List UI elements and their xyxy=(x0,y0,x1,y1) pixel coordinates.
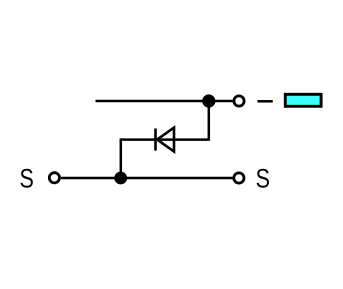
junction dot bottom xyxy=(114,172,127,185)
dash (minus sign) xyxy=(258,100,273,103)
terminal circle top right xyxy=(234,96,244,106)
wire from top junction through diode level to bottom junction xyxy=(121,101,209,178)
wire bottom horizontal xyxy=(61,177,233,180)
wire top horizontal xyxy=(96,100,233,103)
marker rectangle cyan xyxy=(285,94,321,106)
diode triangle xyxy=(157,128,174,152)
terminal circle bottom left xyxy=(49,173,59,183)
svg-text:S: S xyxy=(256,164,270,194)
junction dot top xyxy=(202,94,215,107)
svg-text:S: S xyxy=(20,164,34,194)
diode cathode bar xyxy=(154,129,157,151)
terminal circle bottom right xyxy=(234,173,244,183)
